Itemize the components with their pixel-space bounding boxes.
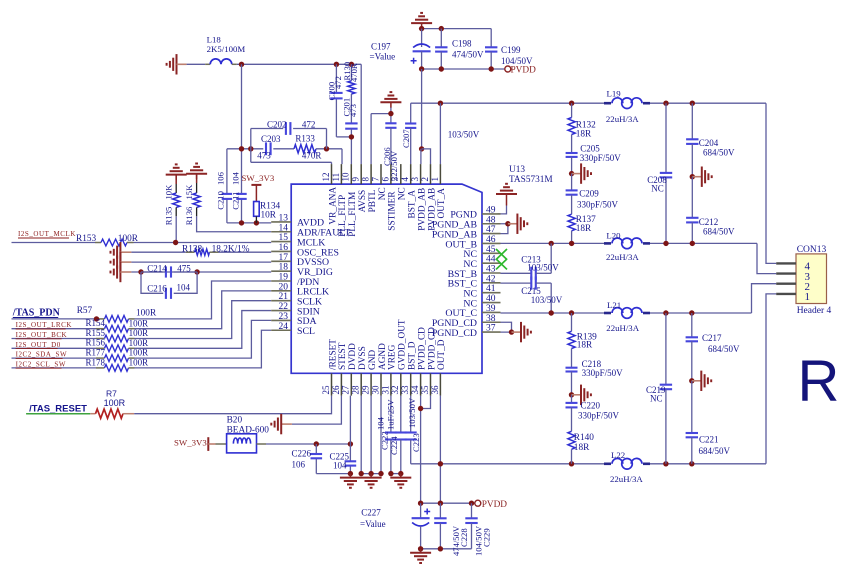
svg-text:PVDD: PVDD [482, 500, 508, 510]
svg-text:104: 104 [230, 171, 240, 185]
svg-text:C210: C210 [216, 191, 226, 210]
svg-text:42: 42 [486, 274, 496, 284]
svg-text:OUT_B: OUT_B [445, 239, 477, 250]
svg-text:PGND: PGND [450, 210, 477, 221]
svg-text:/TAS_PDN: /TAS_PDN [12, 308, 61, 319]
svg-text:PGND_CD: PGND_CD [432, 318, 477, 329]
svg-text:475: 475 [177, 263, 191, 273]
svg-text:37: 37 [486, 324, 496, 334]
svg-text:PVDD_CD: PVDD_CD [417, 327, 427, 370]
svg-text:104: 104 [376, 416, 386, 430]
svg-text:TAS5731M: TAS5731M [509, 175, 553, 185]
svg-text:DVDD: DVDD [348, 343, 358, 370]
svg-text:684/50V: 684/50V [703, 227, 735, 237]
svg-text:10R: 10R [261, 211, 277, 221]
svg-text:39: 39 [486, 304, 496, 314]
svg-text:R153: R153 [76, 234, 96, 244]
svg-text:474/50V: 474/50V [452, 50, 484, 60]
svg-text:L21: L21 [607, 300, 621, 310]
svg-text:15: 15 [279, 233, 289, 243]
svg-text:BST_B: BST_B [448, 269, 478, 280]
svg-text:R178: R178 [86, 357, 106, 367]
svg-text:R135: R135 [164, 207, 174, 226]
svg-text:C224: C224 [389, 436, 399, 455]
svg-text:36: 36 [430, 385, 440, 395]
svg-text:474/50V: 474/50V [451, 525, 461, 556]
svg-text:472: 472 [302, 120, 316, 130]
svg-text:PGND_AB: PGND_AB [432, 229, 478, 240]
svg-text:473: 473 [348, 104, 358, 117]
svg-text:49: 49 [486, 205, 496, 215]
svg-text:47: 47 [486, 225, 496, 235]
svg-text:C204: C204 [699, 138, 719, 148]
svg-text:100R: 100R [129, 348, 149, 358]
svg-text:103/50V: 103/50V [407, 397, 417, 428]
svg-text:17: 17 [279, 253, 289, 263]
svg-text:C207: C207 [401, 129, 411, 148]
svg-text:330pF/50V: 330pF/50V [577, 200, 619, 210]
svg-text:NC: NC [463, 249, 477, 260]
svg-text:BEAD-600: BEAD-600 [227, 426, 270, 436]
svg-text:7: 7 [370, 177, 380, 182]
svg-text:25: 25 [321, 385, 331, 395]
svg-text:29: 29 [361, 385, 371, 395]
svg-text:R: R [798, 349, 840, 414]
svg-text:473: 473 [257, 151, 271, 161]
svg-text:DVSS: DVSS [358, 346, 368, 370]
svg-text:14: 14 [279, 223, 289, 233]
svg-text:8: 8 [361, 177, 371, 182]
svg-text:R155: R155 [86, 328, 106, 338]
svg-text:SW_3V3: SW_3V3 [174, 438, 207, 448]
svg-text:470R: 470R [302, 151, 322, 161]
svg-text:18.2K/1%: 18.2K/1% [212, 245, 250, 255]
svg-text:20: 20 [279, 282, 289, 292]
svg-text:C222: C222 [379, 431, 389, 450]
svg-text:C212: C212 [699, 217, 719, 227]
svg-text:28: 28 [351, 385, 361, 395]
svg-text:AGND: AGND [378, 343, 388, 370]
svg-text:10: 10 [341, 172, 351, 182]
svg-text:/RESET: /RESET [328, 339, 338, 370]
svg-text:104: 104 [333, 461, 347, 471]
svg-text:106: 106 [216, 171, 226, 185]
svg-text:C221: C221 [699, 435, 719, 445]
svg-text:I2S_OUT_D0: I2S_OUT_D0 [16, 341, 61, 349]
svg-text:1: 1 [805, 291, 811, 303]
svg-text:222/50V: 222/50V [389, 150, 399, 181]
svg-text:104: 104 [177, 283, 191, 293]
svg-text:VR_ANA: VR_ANA [328, 187, 338, 225]
svg-text:9: 9 [351, 177, 361, 182]
svg-text:I2C2_SCL_SW: I2C2_SCL_SW [16, 360, 66, 368]
svg-text:NC: NC [651, 184, 664, 194]
svg-text:44: 44 [486, 255, 496, 265]
svg-text:NC: NC [650, 394, 663, 404]
svg-text:OUT_D: OUT_D [437, 339, 447, 370]
svg-text:C198: C198 [452, 39, 472, 49]
svg-text:R133: R133 [295, 134, 315, 144]
svg-text:CON13: CON13 [797, 245, 827, 255]
svg-text:18R: 18R [577, 341, 593, 351]
svg-text:19: 19 [279, 273, 289, 283]
svg-text:L22: L22 [611, 450, 625, 460]
svg-text:R154: R154 [86, 318, 106, 328]
svg-text:2K5/100M: 2K5/100M [207, 44, 246, 54]
svg-text:13: 13 [279, 213, 289, 223]
svg-text:PLL_FLTP: PLL_FLTP [338, 195, 348, 237]
svg-text:103/50V: 103/50V [527, 263, 559, 273]
svg-text:33: 33 [400, 385, 410, 395]
svg-text:GVDD_OUT: GVDD_OUT [398, 319, 408, 370]
svg-text:STEST: STEST [338, 342, 348, 370]
svg-text:100R: 100R [129, 318, 149, 328]
svg-text:L18: L18 [207, 35, 222, 45]
svg-text:330pF/50V: 330pF/50V [580, 153, 622, 163]
svg-text:24: 24 [279, 322, 289, 332]
svg-text:PVDD_AB: PVDD_AB [417, 188, 427, 231]
svg-text:26: 26 [331, 385, 341, 395]
svg-text:PBTL: PBTL [368, 189, 378, 212]
svg-text:OUT_C: OUT_C [445, 308, 477, 319]
svg-text:35: 35 [420, 385, 430, 395]
svg-text:NC: NC [398, 187, 408, 200]
svg-text:4: 4 [400, 177, 410, 182]
svg-text:15K: 15K [184, 184, 194, 200]
svg-text:22uH/3A: 22uH/3A [606, 323, 639, 333]
svg-text:PGND_CD: PGND_CD [432, 328, 477, 339]
svg-text:21: 21 [279, 292, 289, 302]
svg-text:22uH/3A: 22uH/3A [606, 114, 639, 124]
svg-text:I2S_OUT_LRCK: I2S_OUT_LRCK [16, 321, 72, 329]
svg-text:100R: 100R [129, 358, 149, 368]
svg-text:470R: 470R [349, 63, 359, 82]
svg-text:Header 4: Header 4 [797, 306, 832, 316]
svg-text:=Value: =Value [360, 519, 386, 529]
svg-text:R177: R177 [86, 348, 106, 358]
svg-text:684/50V: 684/50V [703, 148, 735, 158]
svg-text:B20: B20 [227, 416, 243, 426]
svg-text:18: 18 [279, 263, 289, 273]
svg-text:18R: 18R [576, 130, 592, 140]
svg-text:100R: 100R [129, 328, 149, 338]
svg-text:R138: R138 [182, 245, 202, 255]
svg-text:C211: C211 [230, 191, 240, 209]
svg-text:C205: C205 [580, 144, 600, 154]
svg-text:BST_C: BST_C [448, 279, 477, 290]
svg-text:40: 40 [486, 294, 496, 304]
svg-text:L19: L19 [607, 89, 622, 99]
svg-text:BST_A: BST_A [408, 190, 418, 219]
svg-text:104/50V: 104/50V [501, 56, 533, 66]
svg-text:I2C2_SDA_SW: I2C2_SDA_SW [16, 351, 68, 359]
svg-text:22uH/3A: 22uH/3A [610, 474, 643, 484]
svg-text:U13: U13 [509, 165, 525, 175]
svg-text:SW_3V3: SW_3V3 [242, 173, 275, 183]
svg-text:C220: C220 [581, 401, 601, 411]
svg-text:22uH/3A: 22uH/3A [606, 252, 639, 262]
svg-text:PGND_AB: PGND_AB [432, 220, 478, 231]
svg-text:NC: NC [463, 259, 477, 270]
svg-text:41: 41 [486, 284, 496, 294]
svg-text:C209: C209 [579, 189, 599, 199]
svg-text:46: 46 [486, 235, 496, 245]
svg-text:18R: 18R [574, 443, 590, 453]
svg-text:100R: 100R [136, 309, 157, 319]
svg-text:I2S_OUT_BCK: I2S_OUT_BCK [16, 331, 68, 339]
svg-text:=Value: =Value [370, 52, 396, 62]
svg-text:103/50V: 103/50V [531, 295, 563, 305]
svg-text:L20: L20 [606, 231, 621, 241]
svg-text:PLL_FLTM: PLL_FLTM [348, 192, 358, 237]
svg-text:12: 12 [321, 173, 331, 182]
svg-text:1: 1 [430, 177, 440, 182]
svg-text:3: 3 [410, 177, 420, 182]
svg-text:NC: NC [463, 289, 477, 300]
svg-text:18R: 18R [576, 224, 592, 234]
svg-text:NC: NC [378, 187, 388, 200]
svg-text:2: 2 [420, 177, 430, 182]
svg-text:45: 45 [486, 245, 496, 255]
svg-text:PVDD_CD: PVDD_CD [427, 327, 437, 370]
svg-text:31: 31 [380, 386, 390, 395]
svg-text:104/50V: 104/50V [474, 525, 484, 556]
svg-text:C217: C217 [702, 333, 722, 343]
svg-text:SCL: SCL [297, 326, 315, 337]
svg-text:/TAS_RESET: /TAS_RESET [29, 404, 87, 415]
svg-text:330pF/50V: 330pF/50V [578, 411, 620, 421]
svg-text:30: 30 [370, 385, 380, 395]
svg-text:OUT_A: OUT_A [437, 188, 447, 219]
svg-text:GND: GND [368, 350, 378, 370]
svg-text:AVSS: AVSS [358, 190, 368, 213]
svg-text:684/50V: 684/50V [708, 344, 740, 354]
svg-text:684/50V: 684/50V [699, 446, 731, 456]
svg-text:1uF/25V: 1uF/25V [385, 399, 395, 430]
svg-text:27: 27 [341, 385, 351, 395]
svg-text:23: 23 [279, 312, 289, 322]
svg-text:C216: C216 [147, 283, 167, 293]
svg-text:C197: C197 [371, 42, 391, 52]
svg-text:C226: C226 [292, 449, 312, 459]
svg-text:R156: R156 [86, 338, 106, 348]
svg-text:330pF/50V: 330pF/50V [582, 368, 624, 378]
svg-text:I2S_OUT_MCLK: I2S_OUT_MCLK [18, 230, 76, 238]
svg-text:PVDD_AB: PVDD_AB [427, 188, 437, 231]
svg-text:34: 34 [410, 385, 420, 395]
svg-text:C203: C203 [261, 134, 281, 144]
svg-text:PVDD: PVDD [511, 66, 537, 76]
svg-text:100R: 100R [118, 234, 139, 244]
svg-text:VREG: VREG [388, 344, 398, 370]
svg-text:48: 48 [486, 215, 496, 225]
svg-text:R57: R57 [77, 306, 93, 316]
svg-text:16: 16 [279, 243, 289, 253]
svg-text:C214: C214 [147, 263, 167, 273]
svg-text:C227: C227 [361, 508, 381, 518]
svg-text:11: 11 [331, 173, 341, 182]
svg-text:NC: NC [463, 298, 477, 309]
svg-text:BST_D: BST_D [408, 341, 418, 370]
svg-text:103/50V: 103/50V [448, 130, 480, 140]
svg-text:R7: R7 [106, 389, 117, 399]
svg-text:22: 22 [279, 302, 289, 312]
svg-text:100R: 100R [129, 338, 149, 348]
svg-text:32: 32 [390, 386, 400, 395]
svg-text:R140: R140 [574, 433, 594, 443]
svg-text:43: 43 [486, 265, 496, 275]
svg-text:C202: C202 [267, 120, 287, 130]
svg-text:C199: C199 [501, 45, 521, 55]
svg-text:C223: C223 [411, 433, 421, 452]
svg-text:38: 38 [486, 314, 496, 324]
svg-text:R136: R136 [184, 206, 194, 225]
svg-text:10K: 10K [164, 184, 174, 200]
svg-text:106: 106 [292, 460, 306, 470]
svg-text:100R: 100R [104, 398, 126, 408]
svg-text:SSTIMER: SSTIMER [388, 191, 398, 231]
